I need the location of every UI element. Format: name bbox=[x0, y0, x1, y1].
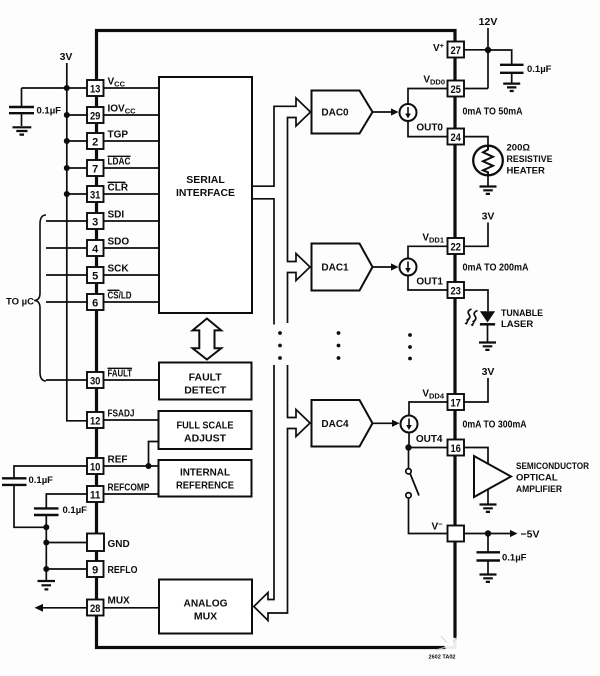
svg-text:SDI: SDI bbox=[108, 210, 125, 221]
pin 17 VDD4 bbox=[448, 394, 465, 410]
pin 3 SDI bbox=[87, 213, 104, 229]
wire cs4 to VDD4 pin bbox=[409, 402, 448, 416]
svg-text:28: 28 bbox=[90, 603, 101, 615]
svg-text:30: 30 bbox=[90, 375, 101, 387]
wire DAC4 to current source bbox=[373, 422, 393, 424]
svg-text:200Ω: 200Ω bbox=[507, 143, 531, 154]
capacitor C3 0.1uF bbox=[34, 508, 59, 515]
ground G5 bbox=[479, 343, 496, 350]
pin 28 MUX bbox=[87, 600, 104, 616]
pin 12 FSADJ bbox=[87, 412, 104, 428]
svg-text:SERIAL: SERIAL bbox=[186, 174, 225, 186]
svg-text:0mA TO 300mA: 0mA TO 300mA bbox=[463, 420, 527, 431]
pin 31 CLR bbox=[87, 186, 104, 202]
svg-text:−5V: −5V bbox=[521, 529, 540, 541]
svg-text:AMPLIFIER: AMPLIFIER bbox=[516, 484, 562, 495]
svg-text:GND: GND bbox=[108, 539, 130, 550]
wire pin25 to 12V bbox=[464, 88, 488, 90]
svg-text:0.1µF: 0.1µF bbox=[527, 64, 552, 75]
bus serial lower stub bbox=[252, 199, 274, 325]
svg-text:REF: REF bbox=[108, 455, 128, 466]
wire MUX out with arrow bbox=[104, 607, 160, 609]
svg-text:31: 31 bbox=[90, 189, 101, 201]
ellipsis dots current source column bbox=[408, 333, 412, 337]
switch S1 bbox=[408, 451, 410, 469]
semiconductor optical amplifier A1 bbox=[474, 456, 511, 497]
pin 22 VDD1 bbox=[448, 238, 465, 254]
capacitor C2 0.1uF bbox=[2, 478, 27, 485]
svg-text:OPTICAL: OPTICAL bbox=[516, 473, 558, 484]
svg-text:16: 16 bbox=[450, 443, 461, 455]
ground G7 bbox=[480, 575, 497, 582]
wire to cap5 bbox=[487, 534, 489, 552]
svg-text:25: 25 bbox=[450, 84, 461, 96]
svg-text:DAC0: DAC0 bbox=[321, 108, 349, 119]
svg-text:ANALOG: ANALOG bbox=[184, 598, 228, 610]
wire SCK left bbox=[46, 274, 87, 276]
svg-text:0mA TO 200mA: 0mA TO 200mA bbox=[463, 263, 529, 274]
pin 7 LDAC bbox=[87, 160, 104, 176]
svg-text:SCK: SCK bbox=[108, 264, 130, 275]
wire cs1 to VDD1 pin bbox=[408, 246, 448, 258]
svg-text:FULL SCALE: FULL SCALE bbox=[177, 420, 234, 432]
pin 2 TGP bbox=[87, 133, 104, 149]
svg-text:0mA TO 50mA: 0mA TO 50mA bbox=[463, 107, 523, 118]
block internal reference bbox=[159, 460, 252, 497]
bidirectional arrow serial-fault bbox=[193, 319, 222, 360]
svg-text:0.1µF: 0.1µF bbox=[37, 106, 62, 117]
block fault detect bbox=[159, 363, 252, 400]
pin 27 V+ bbox=[448, 42, 465, 58]
node REF junction bbox=[146, 463, 152, 469]
laser diode D1 bbox=[480, 311, 495, 322]
wire cs0 to VDD0 pin bbox=[408, 89, 448, 105]
ground G3 bbox=[503, 84, 520, 91]
svg-text:FAULT: FAULT bbox=[189, 372, 223, 384]
wire REF to full scale adjust bbox=[149, 442, 159, 467]
svg-text:FAULT: FAULT bbox=[108, 369, 133, 380]
wire REFCOMP to internal reference bbox=[104, 493, 159, 495]
svg-text:6: 6 bbox=[92, 297, 98, 309]
svg-text:REFLO: REFLO bbox=[108, 565, 138, 576]
chip outline bbox=[97, 31, 456, 648]
svg-text:DETECT: DETECT bbox=[184, 385, 227, 397]
svg-text:MUX: MUX bbox=[108, 596, 131, 607]
op block serial interface U1 bbox=[159, 77, 252, 313]
pin 24 OUT0 bbox=[448, 129, 465, 145]
wire CS/LD left bbox=[46, 301, 87, 303]
svg-text:7: 7 bbox=[92, 163, 98, 175]
svg-text:TUNABLE: TUNABLE bbox=[501, 308, 543, 319]
wire cs0 to OUT0 pin bbox=[408, 121, 448, 137]
svg-text:2602 TA02: 2602 TA02 bbox=[429, 655, 456, 661]
svg-text:SEMICONDUCTOR: SEMICONDUCTOR bbox=[516, 461, 589, 472]
wire FSADJ to full scale adjust bbox=[104, 419, 159, 421]
svg-text:INTERFACE: INTERFACE bbox=[176, 187, 235, 199]
wire REF left branch bbox=[14, 466, 87, 478]
wire FAULT left bbox=[46, 379, 87, 381]
wire DAC0 to current source bbox=[373, 111, 392, 113]
svg-text:3V: 3V bbox=[60, 51, 73, 63]
pin 9 REFLO bbox=[87, 561, 104, 577]
ground G6 bbox=[480, 505, 497, 512]
resistive heater R1 bbox=[473, 146, 503, 176]
svg-text:CLR: CLR bbox=[108, 183, 129, 194]
wire REFCOMP left branch bbox=[46, 494, 87, 508]
svg-text:2: 2 bbox=[92, 136, 98, 148]
svg-text:0.1µF: 0.1µF bbox=[502, 553, 527, 564]
block full scale adjust bbox=[159, 411, 252, 449]
current source I1 bbox=[400, 259, 417, 276]
node junction caps bbox=[43, 524, 49, 530]
svg-text:27: 27 bbox=[450, 45, 461, 57]
bus lower section with analog mux arrow and DAC4 arrow bbox=[254, 365, 310, 621]
wire REF to internal reference bbox=[104, 465, 159, 467]
svg-text:SDO: SDO bbox=[108, 237, 130, 248]
block analog mux bbox=[159, 580, 252, 634]
ellipsis dots dac column bbox=[337, 331, 341, 335]
svg-text:OUT4: OUT4 bbox=[416, 434, 443, 445]
wire REFLO pin bbox=[46, 568, 87, 570]
svg-text:HEATER: HEATER bbox=[507, 166, 545, 177]
svg-text:REFERENCE: REFERENCE bbox=[176, 480, 234, 492]
svg-text:29: 29 bbox=[90, 110, 101, 122]
wire 12V down bbox=[487, 28, 489, 89]
bus serial to DAC0 and DAC1 arrows bbox=[252, 98, 311, 323]
svg-text:TGP: TGP bbox=[108, 130, 129, 141]
svg-text:LDAC: LDAC bbox=[108, 157, 131, 168]
capacitor C5 0.1uF bbox=[477, 552, 501, 560]
pin GND bbox=[87, 534, 104, 552]
svg-text:0.1µF: 0.1µF bbox=[63, 505, 88, 516]
pin V- bbox=[448, 526, 465, 542]
ellipsis dots bus bbox=[278, 331, 282, 335]
svg-text:24: 24 bbox=[450, 132, 461, 144]
capacitor C1 0.1uF bbox=[21, 88, 23, 106]
wire FAULT to fault detect bbox=[104, 379, 160, 381]
svg-text:11: 11 bbox=[90, 489, 101, 501]
wire 3V to pin22 bbox=[464, 223, 488, 247]
pin 6 CS/LD bbox=[87, 294, 104, 310]
svg-text:MUX: MUX bbox=[194, 611, 217, 623]
svg-text:FSADJ: FSADJ bbox=[108, 409, 135, 420]
DAC1 block bbox=[312, 244, 373, 291]
svg-text:LASER: LASER bbox=[501, 319, 533, 330]
pin 25 VDD0 bbox=[448, 81, 465, 97]
pin 4 SDO bbox=[87, 240, 104, 256]
wire 3V to pin17 bbox=[464, 378, 488, 402]
svg-text:INTERNAL: INTERNAL bbox=[180, 467, 231, 479]
watermark blob bottom right corner bbox=[445, 638, 460, 653]
svg-text:ADJUST: ADJUST bbox=[184, 433, 227, 445]
svg-text:12: 12 bbox=[90, 415, 101, 427]
svg-text:13: 13 bbox=[90, 83, 101, 95]
svg-text:5: 5 bbox=[92, 270, 98, 282]
svg-text:22: 22 bbox=[450, 241, 461, 253]
svg-text:TO µC: TO µC bbox=[6, 297, 34, 308]
laser light squiggles bbox=[473, 311, 478, 323]
wire TGP bbox=[67, 140, 87, 142]
svg-text:12V: 12V bbox=[479, 16, 498, 28]
wires pinbox to serial interface bbox=[104, 87, 160, 89]
wire cap1 to pin13 bbox=[22, 87, 88, 89]
svg-text:DAC4: DAC4 bbox=[321, 419, 349, 430]
pin 29 IOVCC bbox=[87, 107, 104, 123]
junction dots on 3V rail bbox=[64, 85, 70, 91]
svg-text:OUT1: OUT1 bbox=[416, 277, 443, 288]
wire GND pin bbox=[46, 542, 87, 544]
wire pin27 to 12V bbox=[464, 49, 488, 51]
wire cs4 to OUT4 pin bbox=[408, 433, 410, 448]
svg-text:RESISTIVE: RESISTIVE bbox=[507, 154, 553, 165]
wire CLR bbox=[67, 193, 87, 195]
wire cap3 down to ground bbox=[45, 516, 47, 580]
brace TO uC bbox=[34, 215, 46, 381]
DAC4 block bbox=[312, 400, 373, 447]
svg-text:3V: 3V bbox=[482, 366, 495, 378]
svg-text:3V: 3V bbox=[482, 211, 495, 223]
wire cs1 to OUT1 pin bbox=[408, 276, 448, 291]
capacitor C4 0.1uF bbox=[500, 65, 524, 73]
pin 16 OUT4 bbox=[448, 440, 465, 456]
wire OUT4 to SOA bbox=[464, 448, 488, 464]
pin 23 OUT1 bbox=[448, 282, 465, 298]
ground G1 bbox=[13, 127, 32, 134]
wire V- to -5V bbox=[464, 533, 510, 535]
svg-text:REFCOMP: REFCOMP bbox=[108, 483, 150, 494]
wire 12V to cap4 bbox=[488, 50, 512, 64]
svg-text:10: 10 bbox=[90, 461, 101, 473]
wire SDO left bbox=[46, 247, 87, 249]
pin 5 SCK bbox=[87, 267, 104, 283]
svg-text:3: 3 bbox=[92, 216, 98, 228]
node OUT4 junction bbox=[405, 444, 411, 450]
ground G2 bbox=[38, 581, 56, 589]
wire LDAC bbox=[67, 167, 87, 169]
wire OUT1 to laser bbox=[464, 290, 488, 311]
svg-text:9: 9 bbox=[92, 564, 98, 576]
svg-text:OUT0: OUT0 bbox=[416, 123, 443, 134]
wire IOVCC bbox=[67, 114, 87, 116]
svg-text:4: 4 bbox=[92, 243, 99, 255]
wire 3V rail vertical bbox=[67, 63, 87, 421]
wire SDI left bbox=[46, 220, 87, 222]
ground G4 bbox=[480, 187, 497, 194]
wire DAC1 to current source bbox=[373, 266, 392, 268]
pin 11 REFCOMP bbox=[87, 486, 104, 502]
svg-text:DAC1: DAC1 bbox=[321, 263, 349, 274]
current source I0 bbox=[400, 104, 417, 121]
pin 30 FAULT bbox=[87, 372, 104, 388]
svg-text:17: 17 bbox=[450, 397, 461, 409]
svg-text:23: 23 bbox=[450, 285, 461, 297]
current source I4 bbox=[401, 416, 418, 433]
wire OUT0 to heater bbox=[464, 137, 488, 146]
svg-text:0.1µF: 0.1µF bbox=[29, 475, 54, 486]
DAC0 block bbox=[312, 91, 373, 134]
pin 10 REF bbox=[87, 458, 104, 474]
svg-text:CS/LD: CS/LD bbox=[108, 291, 132, 302]
pin 13 VCC bbox=[87, 80, 104, 96]
